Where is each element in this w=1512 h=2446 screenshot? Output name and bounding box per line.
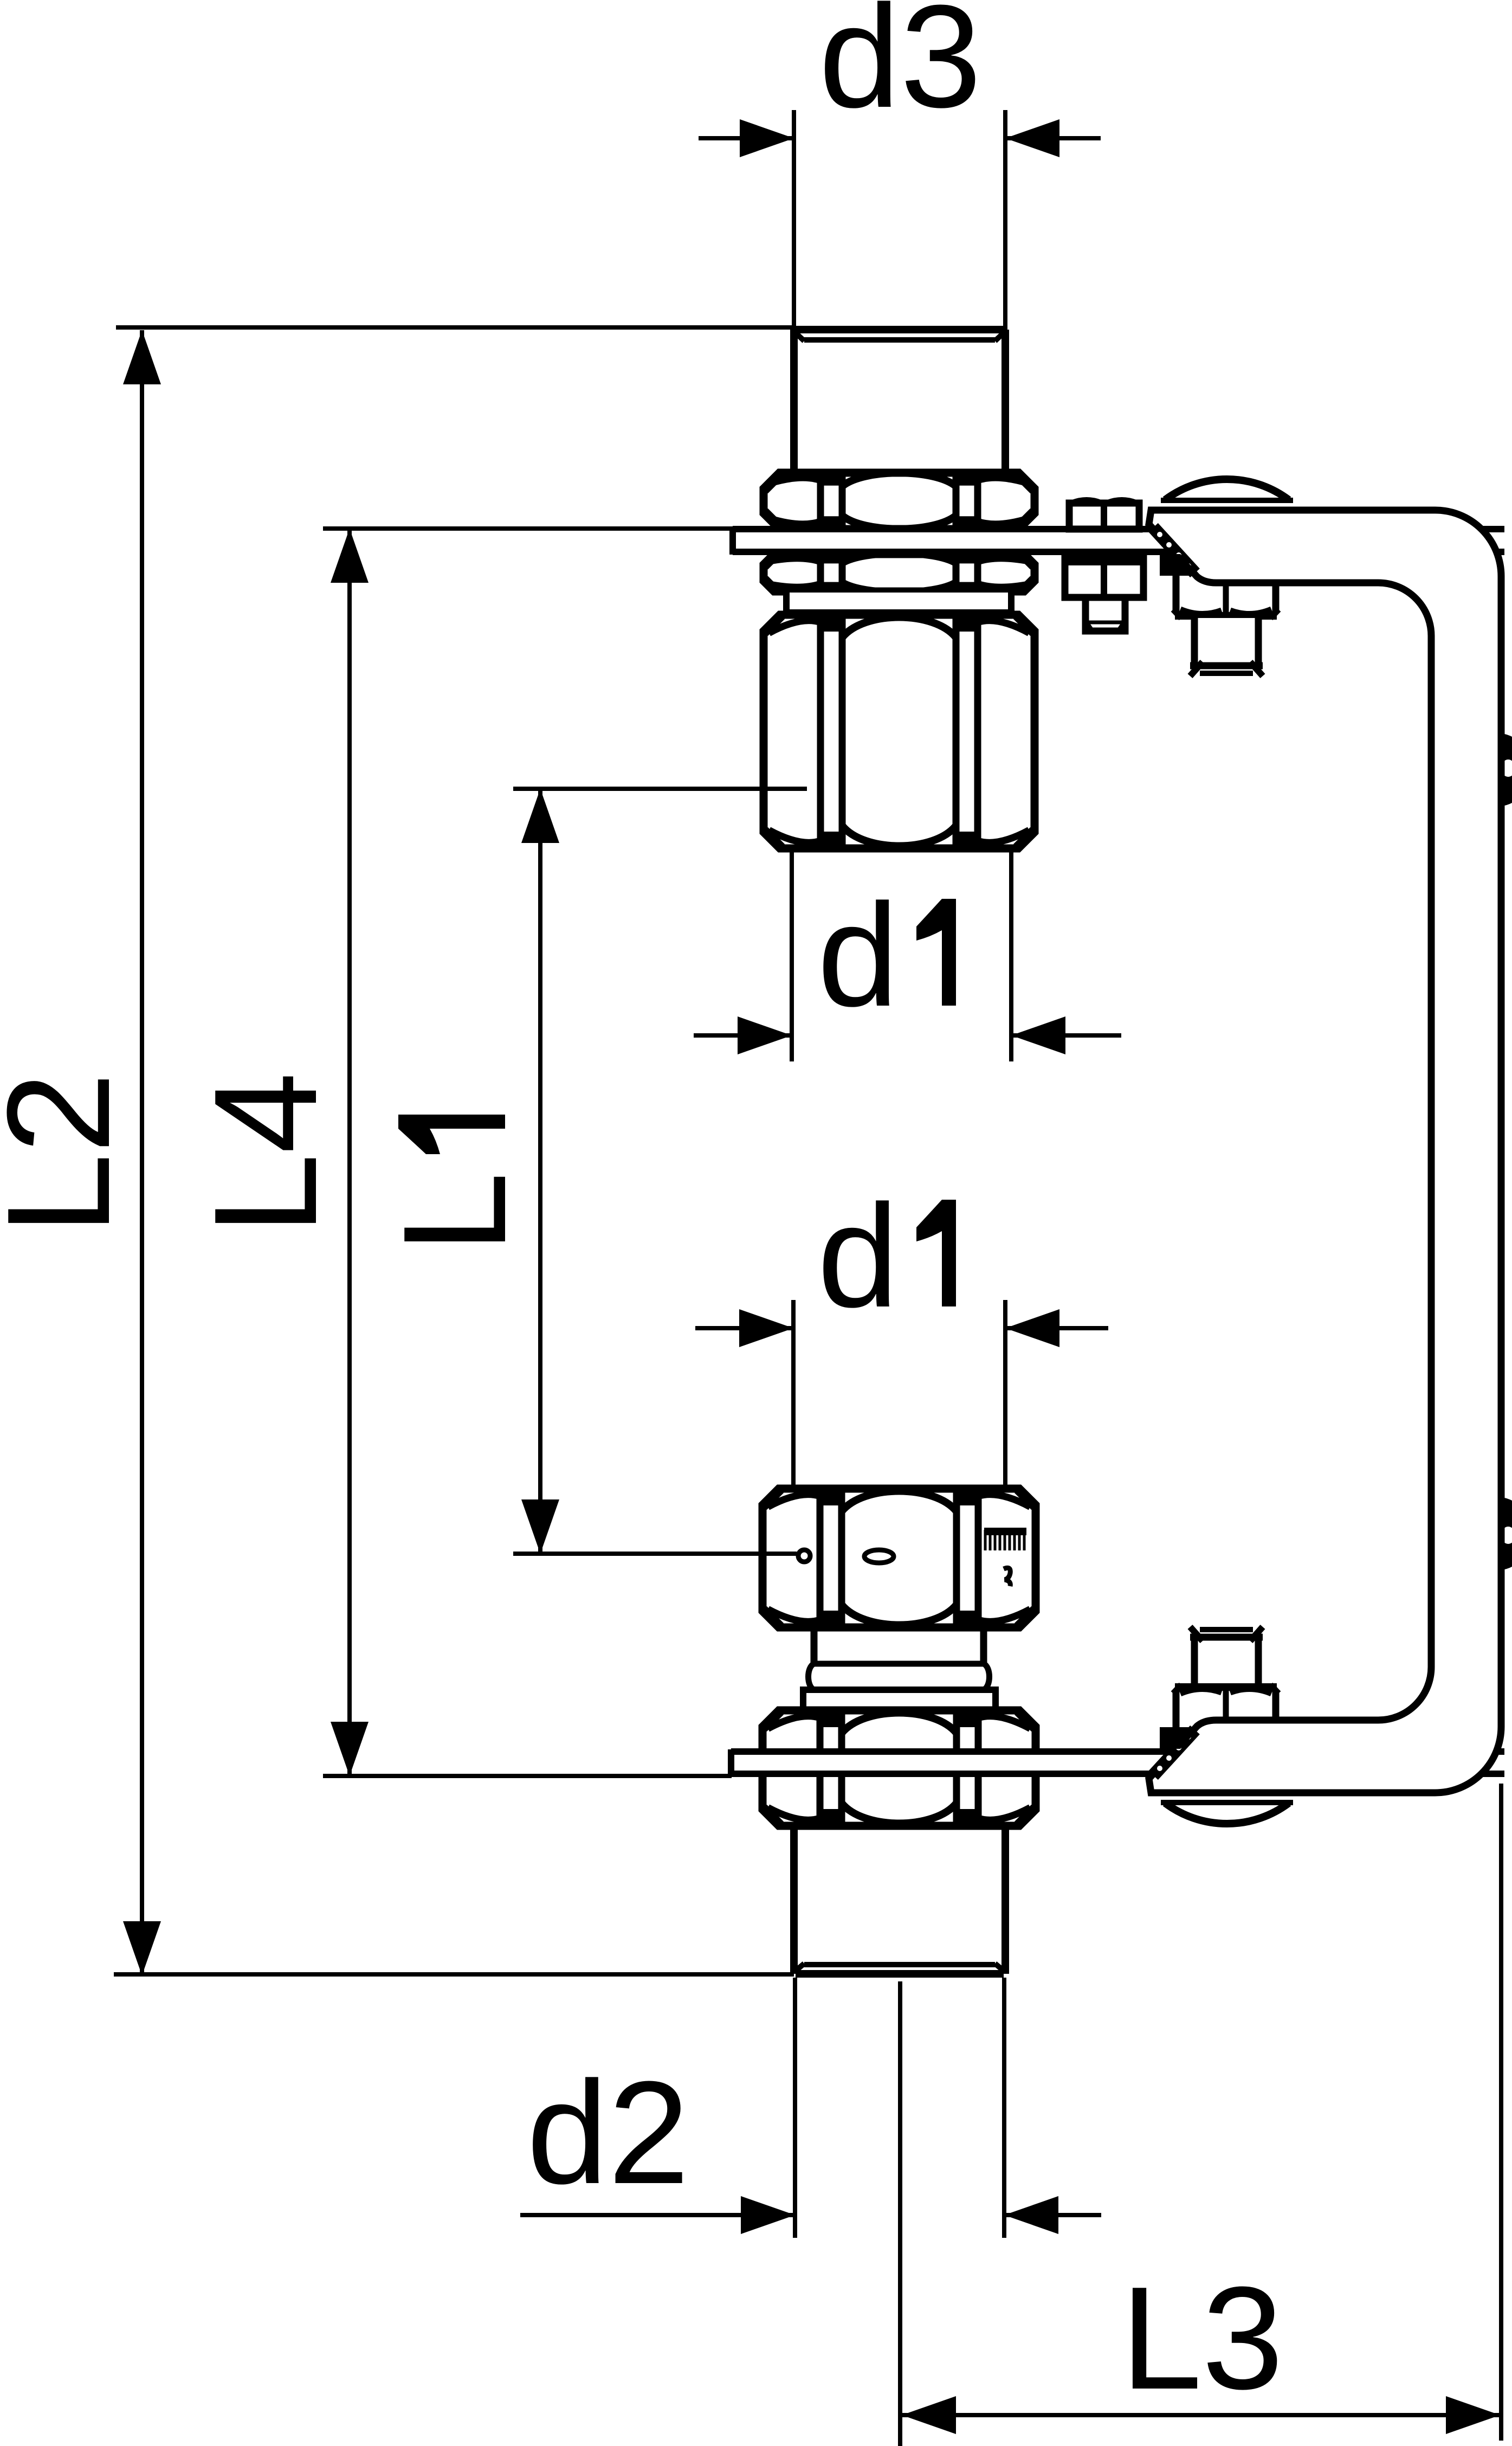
dimension L2 bottom extension line [114,1972,794,1977]
dimension L1 bottom extension line [513,1552,797,1556]
top pipe stub [790,330,798,474]
dome screw head below bottom plate [1165,1803,1289,1824]
dimension L1 top extension line [513,787,807,791]
hex nut N5 (bottom) [763,1710,1036,1826]
washer ring below N2 [786,593,1011,613]
top chamfer band [1153,527,1195,573]
small bolt square shank [1085,597,1125,631]
dimension L3 right extension line [1499,1784,1503,2441]
dimension L4 line [347,529,352,1776]
flange disc [803,1690,996,1710]
bottom mounting plate [731,1752,1504,1774]
dimension d1 upper extension lines [790,852,794,1061]
svg-text:d2: d2 [527,2051,689,2215]
dimension d1 lower line [695,1326,793,1330]
black wedge bottom [1160,1727,1200,1749]
dimension d3 [792,110,796,334]
top mounting plate [733,529,1504,552]
dome screw head on top plate [1165,479,1289,500]
press cylinder below N4 [811,1627,818,1664]
clamp bolt nut above bottom arm [1173,1689,1276,1736]
svg-text:d3: d3 [819,0,981,138]
clamp screw tip upper [1496,733,1512,807]
bottom pipe stub [790,1826,798,1974]
dimension L1 line [538,789,542,1554]
dimension L3 line [902,2413,1500,2417]
dimension L2 line [140,330,144,1975]
U-bracket strap [1149,510,1501,1793]
hex nut N1 (top, above plate) [764,473,1035,529]
clamp bolt square shank above bottom arm [1194,1637,1258,1685]
press indicator ring [814,1661,984,1667]
union nut N3 (large) [764,615,1035,848]
svg-text:d: d [817,874,899,1037]
small bolt head above top plate [1069,503,1139,529]
svg-text:d: d [817,1175,899,1338]
dimension d2 line [520,2213,795,2217]
N4 face hole [798,1550,810,1562]
hex nut N2 (below top plate) [764,554,1035,591]
dimension L4 top extension line [323,526,733,531]
press nut N4 (lower union nut) [763,1489,1036,1627]
svg-text:L3: L3 [1121,2257,1283,2420]
dimension d1 lower extension lines [791,1300,796,1490]
svg-text:L2: L2 [0,1072,140,1235]
N4 knurl marking [984,1528,1026,1535]
clamp bolt nut below top arm [1173,567,1276,614]
N4 small stamp mark [1004,1568,1010,1586]
clamp screw tip lower [1496,1497,1512,1570]
dimension L2 top extension line [116,325,794,330]
pipe centerline [898,1981,902,2446]
svg-text:L4: L4 [184,1072,347,1235]
N4 face slot [864,1550,894,1563]
black wedge top [1160,554,1200,576]
label L1 [373,1115,537,1253]
clamp bolt square shank below top arm [1194,618,1258,666]
dimension L4 bottom extension line [323,1774,732,1778]
dimension d1 upper line [694,1033,792,1038]
small bolt nut below top plate [1065,556,1143,597]
bottom chamfer band [1153,1730,1195,1775]
svg-text:L: L [373,1172,537,1253]
dimension d2 extension lines [793,1978,797,2238]
